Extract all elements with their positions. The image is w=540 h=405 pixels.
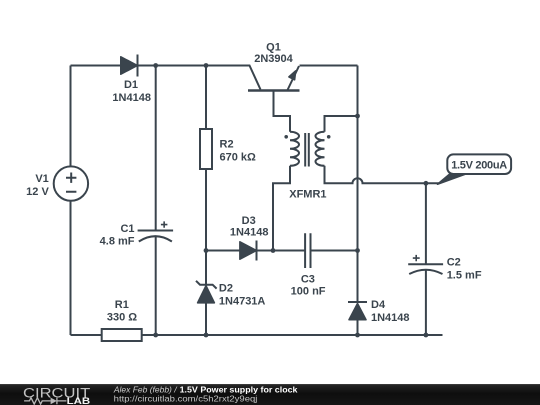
svg-text:670 kΩ: 670 kΩ: [220, 152, 257, 164]
svg-text:http://circuitlab.com/c5h2rxt2: http://circuitlab.com/c5h2rxt2y9eqj: [114, 393, 258, 403]
svg-text:XFMR1: XFMR1: [289, 189, 326, 201]
svg-text:D3: D3: [242, 215, 256, 227]
svg-text:C2: C2: [447, 257, 461, 269]
svg-text:LAB: LAB: [67, 396, 91, 405]
svg-text:Q1: Q1: [266, 41, 281, 53]
svg-text:12 V: 12 V: [26, 186, 49, 198]
svg-text:D1: D1: [124, 79, 138, 91]
svg-text:C3: C3: [301, 274, 315, 286]
svg-text:C1: C1: [120, 223, 134, 235]
svg-text:4.8 mF: 4.8 mF: [100, 236, 135, 248]
svg-text:1N4148: 1N4148: [112, 92, 151, 104]
svg-text:V1: V1: [35, 173, 48, 185]
svg-text:1N4148: 1N4148: [371, 312, 410, 324]
svg-text:1N4148: 1N4148: [230, 227, 269, 239]
svg-text:330 Ω: 330 Ω: [107, 312, 137, 324]
svg-text:D4: D4: [371, 299, 386, 311]
svg-text:1.5V 200uA: 1.5V 200uA: [451, 159, 507, 171]
svg-text:R1: R1: [115, 299, 129, 311]
svg-text:1.5 mF: 1.5 mF: [447, 269, 482, 281]
svg-text:100 nF: 100 nF: [291, 286, 326, 298]
svg-text:R2: R2: [220, 138, 234, 150]
svg-text:2N3904: 2N3904: [254, 53, 293, 65]
svg-text:D2: D2: [219, 283, 233, 295]
svg-text:1N4731A: 1N4731A: [219, 295, 266, 307]
